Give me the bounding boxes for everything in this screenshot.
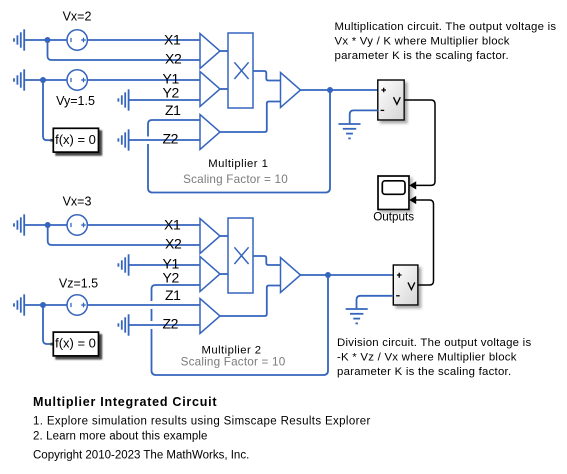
label Scaling Factor = 10	[183, 173, 288, 186]
svg-text:Vy=1.5: Vy=1.5	[56, 94, 95, 108]
solver configuration f(x)=0 block	[50, 128, 98, 152]
ground (electrical reference) G1	[14, 29, 24, 50]
wire X2 branch	[48, 40, 201, 60]
node junction J3	[327, 87, 333, 93]
svg-text:Y2: Y2	[163, 270, 180, 286]
svg-text:Scaling Factor = 10: Scaling Factor = 10	[181, 356, 286, 369]
signal wire sensor2 to scope	[416, 200, 434, 285]
output buffer triangle A8	[281, 258, 301, 293]
wire feedback loop to Y2 (part 2)	[151, 309, 153, 321]
wire feedback loop to Y2 (part 1)	[152, 275, 329, 375]
amplifier triangle A6 (Y)	[200, 257, 220, 292]
voltage source Vy=1.5	[56, 70, 95, 108]
ground G5	[339, 124, 361, 138]
wire Y2 row	[129, 99, 200, 101]
svg-text:Scaling Factor = 10: Scaling Factor = 10	[183, 173, 288, 186]
svg-text:X1: X1	[164, 216, 181, 232]
port label Z2 (bottom)	[163, 316, 179, 332]
port label X1	[164, 31, 181, 47]
wire U1 out to buffer	[253, 71, 281, 81]
svg-text:Multiplier 1: Multiplier 1	[208, 158, 268, 170]
svg-text:Vx=3: Vx=3	[63, 195, 92, 209]
ground (electrical reference) G9	[118, 314, 128, 335]
svg-text:Multiplier 2: Multiplier 2	[201, 344, 261, 356]
copyright	[33, 449, 249, 461]
wire A1 out	[220, 50, 228, 52]
port label Z1 (bottom)	[165, 287, 181, 303]
port label Z2	[163, 131, 179, 147]
wire Y1 row	[24, 79, 200, 81]
wire Z2 row	[129, 139, 200, 141]
node junction J4	[45, 222, 51, 228]
wire A6 out	[220, 273, 228, 275]
label Scaling Factor = 10 (bottom)	[181, 356, 286, 369]
node junction J6	[325, 272, 331, 278]
ground G10	[346, 309, 368, 323]
port label X2	[165, 51, 182, 67]
port label Y2	[163, 85, 180, 101]
wire to solver block	[43, 80, 50, 140]
svg-text:Copyright 2010-2023 The MathWo: Copyright 2010-2023 The MathWorks, Inc.	[33, 449, 249, 461]
wire sensor minus to ground	[350, 110, 378, 123]
scope block Outputs	[373, 176, 414, 224]
wire A8 output to sensor	[301, 274, 394, 276]
svg-text:Vx=2: Vx=2	[63, 10, 92, 24]
wire A3 out to buffer	[220, 102, 281, 133]
voltage source Vz=1.5	[59, 277, 98, 316]
list item 2	[33, 430, 208, 442]
wire Z1 row (bottom)	[24, 304, 200, 306]
wire X2 branch (bottom)	[48, 225, 200, 245]
svg-text:Vx * Vy / K where Multiplier b: Vx * Vy / K where Multiplier block	[335, 36, 510, 48]
svg-text:Vz=1.5: Vz=1.5	[59, 277, 98, 291]
svg-text:Z2: Z2	[163, 131, 179, 147]
label Multiplier 2	[201, 344, 261, 356]
annotation multiplication circuit	[335, 21, 557, 62]
svg-text:Multiplication circuit. The ou: Multiplication circuit. The output volta…	[335, 21, 557, 33]
ground (electrical reference) G7	[118, 254, 128, 275]
wire X1 row (bottom)	[24, 224, 200, 226]
svg-text:Y2: Y2	[163, 85, 180, 101]
solver configuration f(x)=0 block (bottom)	[50, 332, 98, 356]
svg-text:X2: X2	[165, 51, 182, 67]
svg-text:X1: X1	[164, 31, 181, 47]
ground (electrical reference) G3	[118, 89, 128, 110]
svg-text:-K * Vz / Vx where Multiplier: -K * Vz / Vx where Multiplier block	[337, 352, 517, 364]
voltage source Vx=3	[63, 195, 92, 236]
svg-text:Z2: Z2	[163, 316, 179, 332]
port label Y1	[163, 70, 180, 86]
node junction J1	[45, 37, 51, 43]
svg-text:f(x) = 0: f(x) = 0	[55, 336, 96, 351]
wire feedback loop to Z1 (part 2)	[148, 120, 200, 137]
ground (electrical reference) G2	[14, 69, 24, 90]
svg-text:parameter K is the scaling fac: parameter K is the scaling factor.	[337, 366, 511, 378]
port label Y1 (bottom)	[163, 255, 180, 271]
scope input arrow 2	[409, 196, 416, 204]
amplifier triangle A1 (X)	[200, 34, 220, 69]
wire Z2 row (bottom)	[129, 324, 200, 326]
list item 1	[33, 416, 371, 428]
multiplier block U1	[228, 33, 253, 108]
wire sensor2 minus to ground	[357, 296, 394, 309]
signal wire sensor1 to scope	[404, 100, 435, 185]
wire Y1 row (bottom)	[129, 264, 200, 266]
svg-text:parameter K is the scaling fac: parameter K is the scaling factor.	[335, 50, 509, 62]
port label X1 (bottom)	[164, 216, 181, 232]
output buffer triangle A4	[281, 73, 301, 108]
node junction J2	[40, 77, 46, 83]
svg-text:X2: X2	[165, 236, 182, 252]
amplifier triangle A5 (X)	[200, 219, 220, 254]
amplifier triangle A2 (Y)	[200, 72, 220, 107]
svg-text:Outputs: Outputs	[373, 211, 414, 224]
ground (electrical reference) G8	[14, 294, 24, 315]
voltage sensor VM2	[393, 265, 418, 305]
multiplier block U2	[228, 218, 253, 293]
wire A4 output to sensor	[301, 89, 378, 91]
voltage source Vx=2	[63, 10, 92, 51]
port label Z1	[165, 102, 181, 118]
wire to solver block (bottom)	[43, 305, 50, 344]
ground (electrical reference) G4	[118, 129, 128, 150]
amplifier triangle A3 (Z)	[200, 115, 220, 150]
svg-text:f(x) = 0: f(x) = 0	[55, 132, 96, 147]
svg-text:1. Explore simulation results: 1. Explore simulation results using Sims…	[33, 416, 371, 428]
annotation division circuit	[337, 337, 531, 378]
svg-text:Multiplier Integrated Circuit: Multiplier Integrated Circuit	[33, 395, 217, 409]
voltage sensor VM1	[378, 80, 404, 120]
svg-text:Z1: Z1	[165, 287, 181, 303]
svg-text:Z1: Z1	[165, 102, 181, 118]
wire A2 out	[220, 88, 228, 90]
port label X2 (bottom)	[165, 236, 182, 252]
wire A7 out to buffer	[220, 286, 281, 317]
node junction J5	[40, 302, 46, 308]
scope input arrow 1	[409, 181, 416, 189]
wire X1 row	[24, 39, 200, 41]
svg-text:2. Learn more about this examp: 2. Learn more about this example	[33, 430, 208, 442]
wire A5 out	[220, 235, 228, 237]
label Multiplier 1	[208, 158, 268, 170]
wire feedback loop to Y2 (part 3)	[152, 285, 201, 301]
wire feedback loop to Z1 (part 1)	[148, 90, 330, 193]
svg-text:Division circuit. The output v: Division circuit. The output voltage is	[337, 337, 531, 349]
wire U2 out to buffer	[253, 256, 281, 265]
ground (electrical reference) G6	[14, 214, 24, 235]
amplifier triangle A7 (Z)	[200, 299, 220, 334]
port label Y2 (bottom)	[163, 270, 180, 286]
title Multiplier Integrated Circuit	[33, 395, 217, 409]
